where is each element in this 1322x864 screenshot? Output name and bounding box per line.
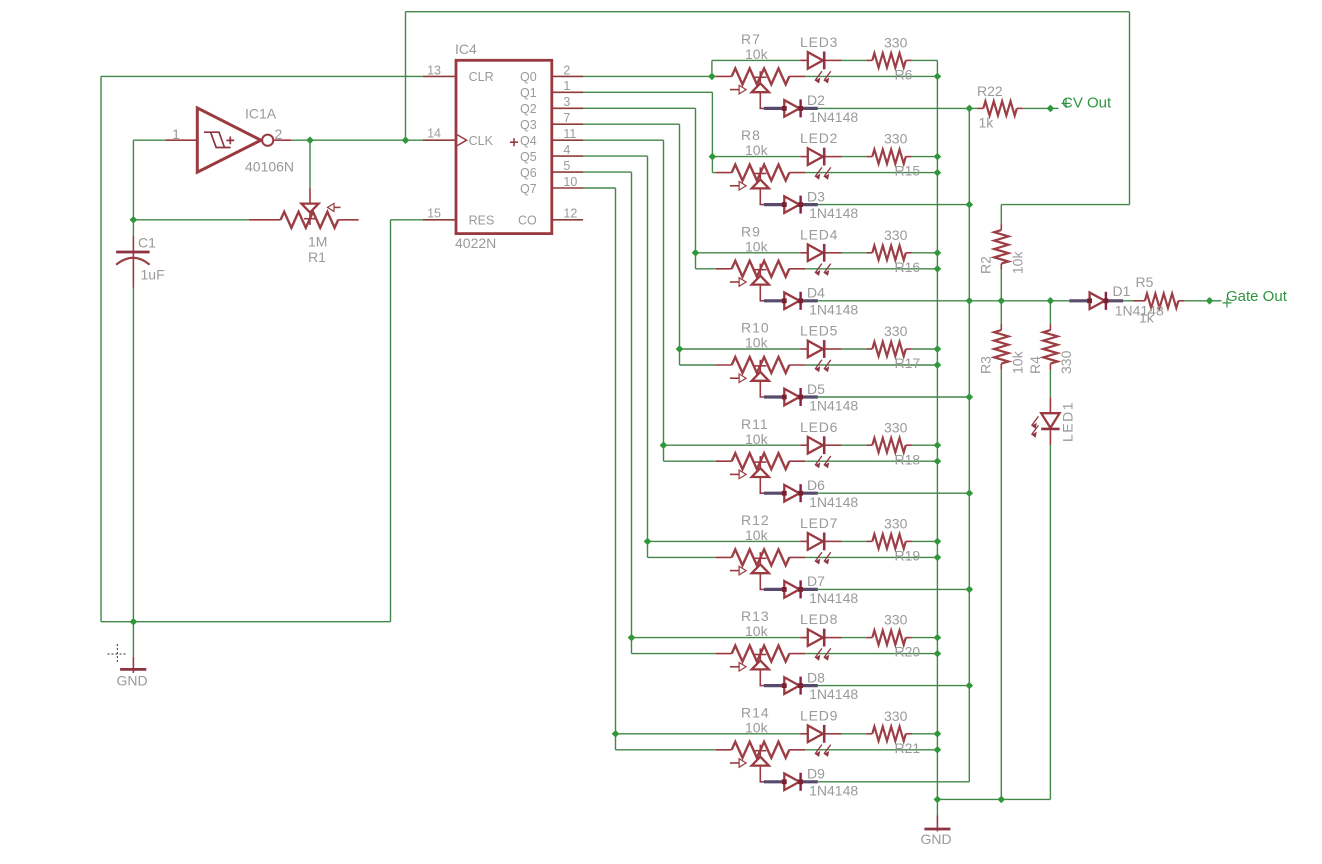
svg-text:11: 11: [563, 127, 576, 141]
svg-text:15: 15: [427, 206, 441, 220]
svg-text:10k: 10k: [745, 623, 769, 639]
svg-text:LED6: LED6: [800, 419, 838, 435]
svg-text:12: 12: [563, 207, 577, 221]
svg-text:330: 330: [884, 35, 908, 51]
svg-text:1k: 1k: [1139, 310, 1155, 326]
svg-text:Q2: Q2: [520, 102, 537, 116]
svg-text:R4: R4: [1027, 356, 1043, 374]
svg-text:CV Out: CV Out: [1062, 95, 1112, 112]
svg-text:10k: 10k: [745, 527, 769, 543]
svg-text:1N4148: 1N4148: [809, 782, 858, 798]
svg-text:1N4148: 1N4148: [809, 301, 858, 317]
svg-text:10k: 10k: [745, 719, 769, 735]
svg-text:4022N: 4022N: [455, 235, 496, 251]
svg-text:R12: R12: [741, 512, 770, 528]
svg-text:Q0: Q0: [520, 70, 537, 84]
svg-text:Q5: Q5: [520, 150, 537, 164]
svg-text:7: 7: [563, 111, 570, 125]
svg-text:Q7: Q7: [520, 182, 537, 196]
svg-text:R2: R2: [978, 256, 994, 274]
svg-text:D7: D7: [807, 573, 825, 589]
svg-text:330: 330: [1058, 350, 1074, 374]
svg-text:CLR: CLR: [469, 70, 494, 84]
svg-text:IC1A: IC1A: [245, 105, 277, 121]
svg-text:1N4148: 1N4148: [809, 590, 858, 606]
svg-text:CLK: CLK: [469, 134, 494, 148]
svg-text:10k: 10k: [745, 335, 769, 351]
svg-text:Q3: Q3: [520, 118, 537, 132]
svg-text:2: 2: [563, 63, 570, 77]
svg-text:40106N: 40106N: [245, 158, 294, 174]
svg-text:R9: R9: [741, 223, 761, 239]
svg-text:R8: R8: [741, 127, 761, 143]
svg-text:D1: D1: [1113, 283, 1131, 299]
svg-text:330: 330: [884, 516, 908, 532]
svg-text:LED9: LED9: [800, 707, 838, 723]
svg-text:1uF: 1uF: [141, 267, 165, 283]
svg-text:R5: R5: [1136, 274, 1154, 290]
svg-text:330: 330: [884, 227, 908, 243]
svg-text:LED3: LED3: [800, 34, 838, 50]
svg-text:R14: R14: [741, 704, 770, 720]
svg-text:1N4148: 1N4148: [809, 205, 858, 221]
svg-text:CO: CO: [518, 214, 537, 228]
svg-text:10k: 10k: [745, 142, 769, 158]
svg-text:10k: 10k: [745, 431, 769, 447]
svg-text:330: 330: [884, 323, 908, 339]
svg-text:C1: C1: [138, 235, 156, 251]
svg-text:1N4148: 1N4148: [809, 494, 858, 510]
svg-text:1k: 1k: [979, 115, 995, 131]
svg-text:Q6: Q6: [520, 166, 537, 180]
svg-text:D2: D2: [807, 92, 825, 108]
svg-text:D4: D4: [807, 285, 825, 301]
svg-text:2: 2: [275, 126, 283, 142]
svg-text:Gate Out: Gate Out: [1226, 288, 1288, 305]
svg-text:R1: R1: [308, 249, 326, 265]
svg-text:R20: R20: [895, 644, 921, 660]
svg-text:LED7: LED7: [800, 515, 838, 531]
svg-text:D6: D6: [807, 477, 825, 493]
svg-text:1N4148: 1N4148: [809, 686, 858, 702]
svg-text:R18: R18: [895, 451, 921, 467]
svg-text:R6: R6: [895, 67, 913, 83]
svg-text:330: 330: [884, 131, 908, 147]
svg-text:5: 5: [563, 159, 570, 173]
svg-text:1: 1: [563, 79, 570, 93]
svg-text:LED1: LED1: [1059, 401, 1075, 442]
svg-text:10k: 10k: [1009, 251, 1025, 275]
svg-text:330: 330: [884, 708, 908, 724]
svg-text:Q4: Q4: [520, 134, 537, 148]
svg-text:R7: R7: [741, 31, 761, 47]
svg-text:GND: GND: [921, 831, 952, 847]
svg-text:10k: 10k: [745, 238, 769, 254]
svg-text:R11: R11: [741, 416, 769, 432]
svg-text:1N4148: 1N4148: [809, 109, 858, 125]
svg-text:LED2: LED2: [800, 130, 838, 146]
svg-text:R21: R21: [895, 740, 921, 756]
svg-text:R3: R3: [978, 356, 994, 374]
svg-text:1: 1: [172, 126, 180, 142]
svg-text:R16: R16: [895, 259, 921, 275]
svg-text:RES: RES: [469, 214, 495, 228]
svg-text:R13: R13: [741, 608, 770, 624]
svg-text:330: 330: [884, 419, 908, 435]
svg-text:4: 4: [563, 143, 570, 157]
svg-text:D3: D3: [807, 188, 825, 204]
svg-text:LED4: LED4: [800, 226, 838, 242]
svg-text:13: 13: [427, 63, 441, 77]
svg-text:10k: 10k: [1009, 350, 1025, 374]
svg-text:R10: R10: [741, 320, 770, 336]
svg-text:14: 14: [427, 127, 441, 141]
svg-text:R17: R17: [895, 355, 921, 371]
svg-text:LED8: LED8: [800, 611, 838, 627]
svg-text:R22: R22: [977, 83, 1003, 99]
svg-text:D9: D9: [807, 766, 825, 782]
svg-text:D5: D5: [807, 381, 825, 397]
svg-text:R15: R15: [895, 163, 921, 179]
svg-text:D8: D8: [807, 669, 825, 685]
svg-text:3: 3: [563, 95, 570, 109]
svg-text:10: 10: [563, 175, 577, 189]
svg-text:IC4: IC4: [455, 41, 477, 57]
svg-text:10k: 10k: [745, 46, 769, 62]
svg-text:330: 330: [884, 612, 908, 628]
svg-text:1N4148: 1N4148: [809, 398, 858, 414]
svg-text:GND: GND: [117, 673, 148, 689]
svg-text:1M: 1M: [308, 233, 327, 249]
svg-text:LED5: LED5: [800, 323, 838, 339]
svg-text:Q1: Q1: [520, 86, 537, 100]
svg-text:R19: R19: [895, 548, 921, 564]
